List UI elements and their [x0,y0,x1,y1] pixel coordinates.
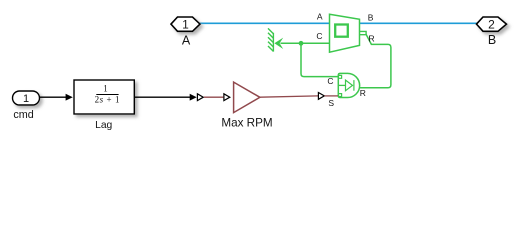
inner square [335,25,348,37]
inport cmd (stadium) [13,91,40,105]
svg-text:R: R [360,88,366,98]
wire: node down to motor port C [301,43,338,76]
svg-text:A: A [317,12,323,22]
svg-text:2s + 1: 2s + 1 [95,94,120,104]
wire: motor R up to trapezoid R tab [358,34,391,87]
svg-text:R: R [369,34,375,44]
svg-text:cmd: cmd [13,109,33,121]
arrowhead (filled) [190,94,197,101]
svg-text:B: B [368,13,374,23]
svg-text:C: C [327,76,333,86]
svg-text:B: B [488,33,496,47]
wire: blue connection trapezoid to B-port [360,22,478,24]
wire: reference to node [281,42,302,44]
wire: into S [325,95,338,97]
wire: Lag to PS converter [134,96,190,98]
wire: blue connection A-port to trapezoid [199,22,330,24]
svg-text:A: A [182,33,191,47]
wire: node to trapezoid port C [301,42,329,44]
node junction dot [299,41,304,46]
svg-text:1: 1 [23,93,29,105]
wire: cmd to Lag [40,96,67,98]
svg-text:Lag: Lag [95,120,112,131]
gain Max RPM (triangle) [234,82,260,113]
R tab [360,31,367,34]
S tab [339,94,342,97]
block U1: trapezoid (rotor/converter) [330,14,367,52]
wire: gain to source S port [260,96,318,97]
svg-text:C: C [316,31,322,41]
PS input triangle of gain (hollow) [224,94,230,101]
PS port triangle (hollow) [197,94,203,101]
svg-text:1: 1 [182,18,189,32]
C tab [339,75,342,78]
arrowhead into reference [274,38,283,49]
svg-text:2: 2 [488,18,495,32]
wire: physical signal to gain [204,96,224,98]
ground: mechanical reference (hatched) [268,28,273,51]
arrowhead into Lag [66,94,73,101]
svg-text:S: S [328,98,334,108]
PS port triangle at S (hollow) [318,93,324,100]
block U2: velocity source (D-shape) [338,73,359,97]
icon: line, triangle, bar [339,84,345,86]
svg-text:1: 1 [103,84,108,94]
port 2 (Connection Port B) hexagon [477,17,507,31]
port 1 (Connection Port A) hexagon [171,17,200,31]
svg-text:Max RPM: Max RPM [221,117,272,130]
block: Lag transfer function [74,80,134,114]
